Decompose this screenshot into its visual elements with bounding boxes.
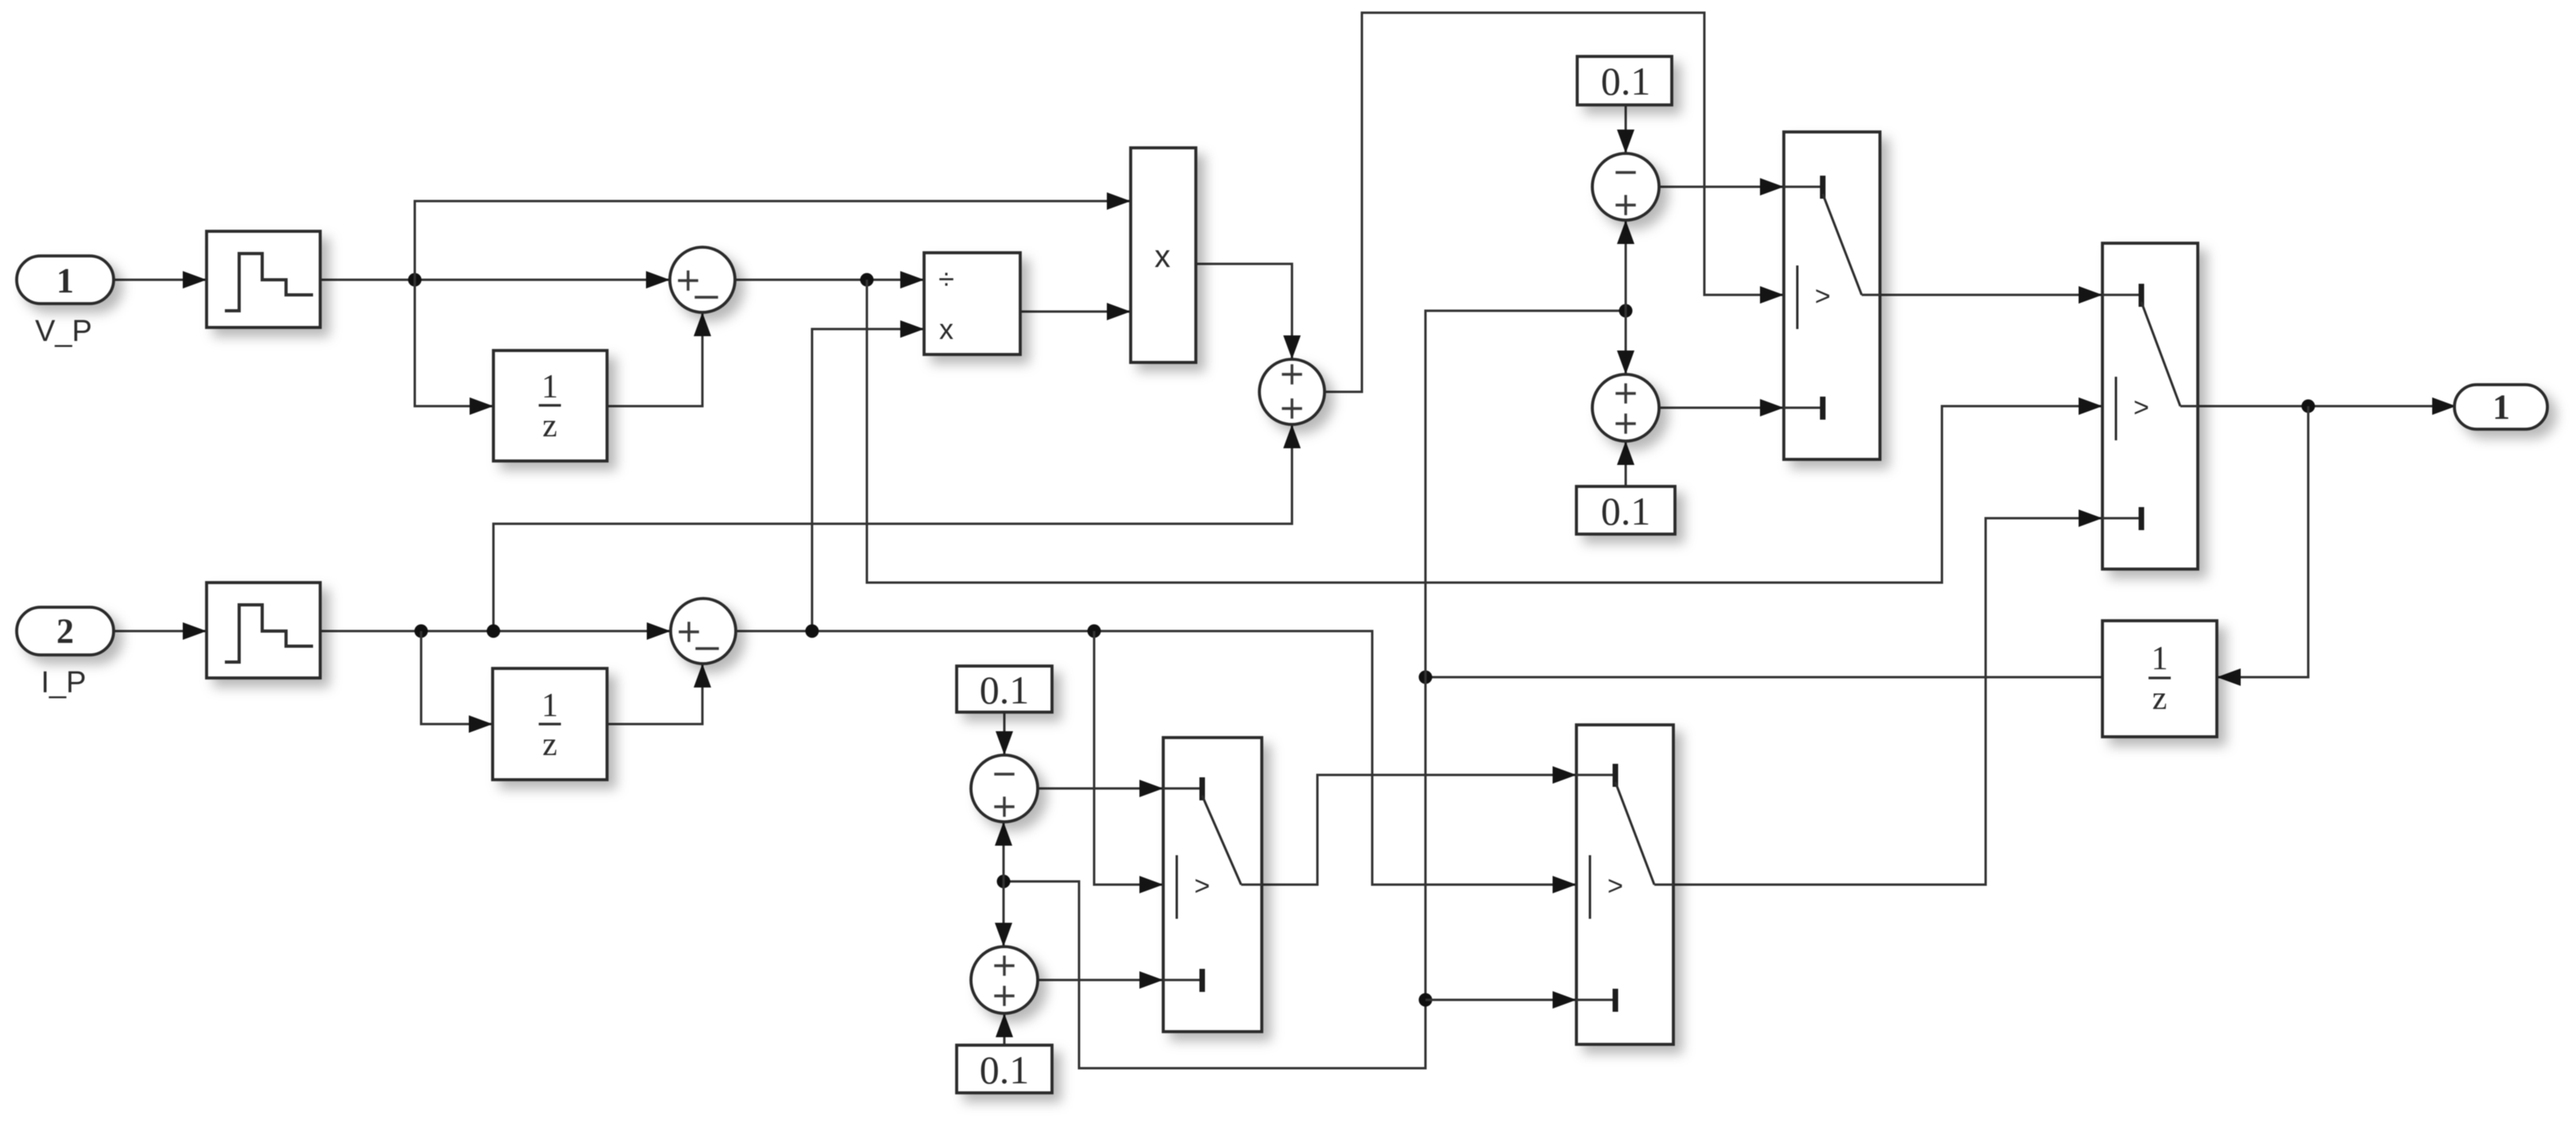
wire in1 to RateTransition1 [112,271,207,289]
wire Switch3 to Switch4 in1 [1262,766,1576,885]
block Switch2 [2102,243,2198,569]
svg-text:>: > [1607,871,1623,901]
constant 0.1 d [957,1045,1052,1093]
constant 0.1 c [957,666,1052,712]
wire node F up to Sum3 bottom [1617,220,1634,311]
block Product [1131,148,1196,362]
block UnitDelay3 1/z [2102,621,2217,737]
wire Constant0.1c to Sum6 top [996,712,1013,755]
svg-text:z: z [543,726,558,763]
sum Sum7 [971,947,1038,1013]
wire node F down to Sum4 top [1617,311,1634,374]
block Switch1 [1784,132,1880,459]
svg-text:1: 1 [2152,641,2168,677]
wire Sum7 to Switch3 in3 [1038,971,1163,989]
svg-text:0.1: 0.1 [1601,59,1651,103]
wire Switch1 to Switch2 in1 [1880,286,2102,304]
junction node H [1419,993,1433,1007]
output port 1 oval [2454,385,2547,429]
svg-text:0.1: 0.1 [980,1048,1030,1092]
svg-text:>: > [1815,281,1831,312]
svg-text:x: x [939,313,953,346]
wire Sum1 to Divide in1 [735,271,924,289]
constant 0.1 b [1576,486,1675,534]
wire node D up to Sum2 bottom [493,424,1301,631]
wire RateTransition2 to Sum5 [320,622,671,640]
wire node A down to UnitDelay1 [415,280,493,415]
wire node C down to UnitDelay2 [421,631,493,733]
svg-text:z: z [543,408,558,444]
wire Sum3 to Switch1 in1 [1659,178,1784,196]
junction node F [1619,304,1633,318]
wire node E down, left, up to node G [1004,677,1425,1068]
svg-text:0.1: 0.1 [980,668,1030,712]
svg-text:z: z [2152,680,2168,717]
input port 1 oval [17,256,114,304]
svg-text:÷: ÷ [938,263,954,296]
wire Sum4 to Switch1 in3 [1659,399,1784,416]
wire node H to Switch4 in3 [1425,991,1576,1009]
svg-text:I_P: I_P [41,666,86,699]
wire Constant0.1a to Sum3 top [1617,106,1634,153]
wire Constant0.1b to Sum4 bottom [1617,441,1634,486]
junction node E [1419,671,1433,684]
wire Switch2 to out1 [2198,397,2456,415]
constant 0.1 a [1577,56,1672,105]
input port 2 oval [17,607,114,655]
svg-text:2: 2 [56,612,74,651]
wire node A up to Product in1 [415,192,1131,280]
wire node E up to node F [1425,311,1626,677]
block UnitDelay2 1/z [493,668,607,780]
svg-text:1: 1 [542,369,559,405]
wire UnitDelay3 output going left [1425,676,2102,679]
sum Sum6 [971,755,1038,822]
wire Sum6 to Switch3 in1 [1038,780,1163,797]
svg-text:x: x [1155,239,1170,274]
junction node K [806,625,819,638]
wire node G up to Sum6 bottom [995,822,1012,881]
wire Sum5 output to Switch4 in2 [736,631,1576,893]
wire RateTransition1 to Sum1 [320,271,670,289]
block Divide [924,253,1020,354]
junction node C [415,625,428,638]
wire Switch4 to Switch2 in3 [1673,509,2102,885]
block UnitDelay1 1/z [493,351,607,461]
block RateTransition2 [207,583,320,678]
sum Sum5 [671,598,736,664]
wire Product to Sum2 top [1196,264,1301,359]
junction node G [997,875,1011,889]
wire Divide to Product in2 [1020,303,1131,320]
junction node B [861,273,874,287]
wire node B down and right to Switch2 in2 [867,280,2102,583]
svg-text:1: 1 [542,688,559,724]
junction node L [1088,625,1101,638]
wire UnitDelay2 to Sum5 bottom [607,664,711,724]
svg-text:0.1: 0.1 [1601,489,1651,533]
svg-text:1: 1 [56,261,74,300]
sum Sum2 [1259,359,1325,424]
sum Sum4 [1592,374,1659,441]
wire UnitDelay1 to Sum1 bottom [607,312,711,406]
wire node G down to Sum7 top [995,881,1012,947]
svg-text:1: 1 [2493,388,2510,427]
wire Constant0.1d to Sum7 bottom [996,1013,1013,1045]
wire node J down to UnitDelay3 input [2217,406,2308,686]
svg-text:>: > [2133,393,2149,423]
block RateTransition1 [207,231,320,327]
wire Sum5 output rail to Divide in2 [812,320,924,631]
junction node J [2302,400,2315,413]
junction node A [408,273,422,287]
junction node D [487,625,501,638]
svg-text:>: > [1194,871,1210,901]
block Switch4 [1576,725,1673,1044]
sum Sum3 [1592,153,1659,220]
wire node L down to Switch3 in2 [1094,631,1163,893]
wire Sum2 to Switch1 in2 [1325,13,1784,392]
svg-text:V_P: V_P [35,315,92,348]
sum Sum1 [670,247,735,312]
block Switch3 [1163,738,1262,1032]
wire in2 to RateTransition2 [112,622,207,640]
